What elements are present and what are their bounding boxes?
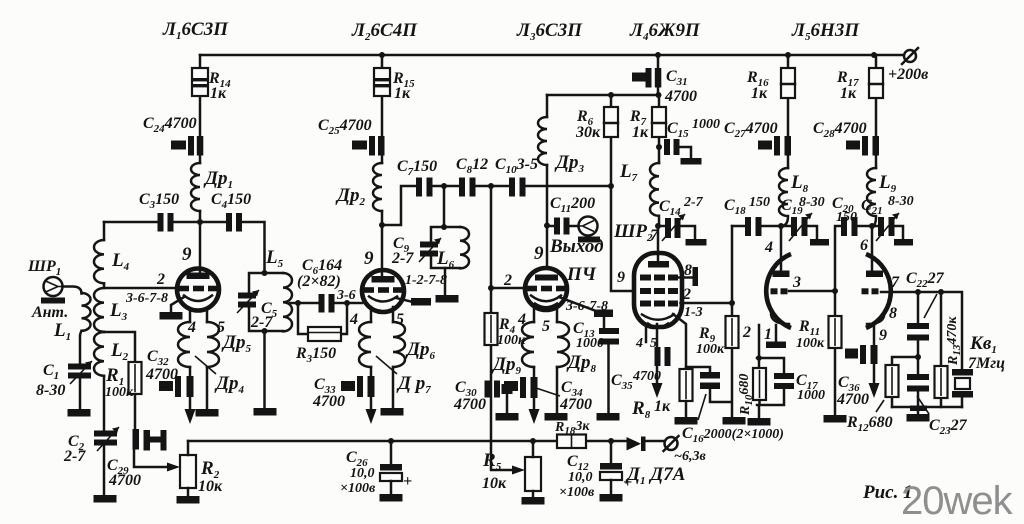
arrow heater stage2 bbox=[366, 409, 377, 424]
wire C10 to Dr3 line bbox=[526, 185, 612, 188]
svg-text:5: 5 bbox=[542, 318, 550, 335]
node L5 bottom bbox=[262, 328, 268, 334]
wire R4 column bbox=[491, 288, 516, 470]
svg-text:4700: 4700 bbox=[453, 396, 486, 413]
svg-text:2: 2 bbox=[156, 271, 165, 288]
ground L5 bbox=[254, 408, 277, 416]
tube V3 grid bbox=[526, 286, 566, 292]
svg-text:2-7: 2-7 bbox=[250, 314, 273, 331]
wire +200V supply rail bbox=[200, 54, 903, 57]
resistor R8 bbox=[680, 369, 693, 401]
svg-text:8: 8 bbox=[684, 262, 692, 279]
tube V3 cathode strap bbox=[594, 310, 613, 318]
svg-text:1000: 1000 bbox=[797, 388, 825, 403]
tube V4 pin8 stub bbox=[693, 267, 699, 286]
resistor R5 bbox=[525, 457, 541, 491]
ground C2 bbox=[94, 495, 117, 503]
inductor Dr1 bbox=[191, 163, 200, 211]
resistor R7 bbox=[652, 107, 666, 137]
node Dr2 bottom bbox=[379, 222, 385, 228]
wire tube2 heater pins bbox=[371, 307, 393, 322]
inductor Dr9 left bbox=[522, 322, 534, 367]
tube V5a grid bbox=[771, 288, 788, 294]
wire tube4 anode stem bbox=[657, 226, 660, 260]
terminal 6.3V bbox=[664, 436, 679, 451]
arrow heater stage3 bbox=[529, 409, 540, 424]
capacitor C13 bbox=[599, 328, 619, 345]
resistor R18 bbox=[557, 435, 586, 449]
node L8 junction bbox=[778, 223, 784, 229]
svg-text:1к: 1к bbox=[654, 398, 671, 415]
diode D1 bbox=[627, 437, 646, 452]
capacitor C11 bbox=[547, 218, 578, 235]
svg-text:150: 150 bbox=[749, 195, 770, 210]
inductor Dr5 right bbox=[207, 322, 219, 367]
resistor R17 bbox=[869, 68, 883, 98]
wire tube5a anode stem bbox=[780, 226, 783, 271]
svg-text:100к: 100к bbox=[796, 336, 825, 351]
node anode-C3-C4 bbox=[197, 219, 203, 225]
resistor R12 bbox=[886, 365, 899, 397]
resistor R1 bbox=[129, 362, 142, 394]
resistor R9 bbox=[726, 316, 739, 348]
capacitor C6 bbox=[319, 294, 335, 313]
capacitor C17 bbox=[774, 373, 794, 389]
svg-text:150: 150 bbox=[836, 210, 857, 225]
svg-text:8-30: 8-30 bbox=[36, 382, 65, 399]
wire R15 anode chain bbox=[381, 55, 384, 225]
resistor R10 bbox=[753, 368, 766, 400]
svg-text:6: 6 bbox=[860, 237, 868, 254]
capacitor C21 trimmer bbox=[872, 213, 913, 246]
wire C9-L6 tank box bbox=[431, 227, 460, 268]
svg-text:2: 2 bbox=[682, 286, 691, 303]
svg-text:8: 8 bbox=[889, 305, 897, 322]
wire pin8 lead bbox=[678, 276, 693, 279]
inductor Dr3 bbox=[538, 117, 547, 165]
inductor Dr6 right bbox=[393, 322, 405, 367]
svg-text:×100в: ×100в bbox=[559, 485, 595, 500]
arrow cathode tube5b bbox=[869, 383, 880, 398]
wire C20 drop bbox=[835, 226, 872, 291]
svg-text:Л46Ж9П: Л46Ж9П bbox=[629, 20, 701, 43]
tube V3 anode bbox=[535, 275, 558, 281]
wire tube5a cathode lead bbox=[775, 325, 778, 341]
inductor L2 bbox=[94, 332, 104, 376]
wire tube3 cathode lead bbox=[559, 297, 596, 311]
tube V2 envelope bbox=[362, 270, 404, 312]
tube V2 cathode bbox=[369, 297, 397, 302]
ground C23 bbox=[907, 414, 930, 422]
wire coil column top bbox=[103, 222, 106, 240]
arrow R5 wiper bbox=[512, 466, 525, 475]
capacitor C36 bbox=[845, 345, 878, 364]
resistor R6 bbox=[604, 107, 618, 137]
tube V5a cathode strap bbox=[766, 342, 786, 349]
ground C23 small bbox=[910, 406, 927, 412]
wire tube5a pin1 lead bbox=[758, 325, 761, 358]
wire R8 lead bbox=[673, 314, 686, 369]
svg-text:3-6-7-8: 3-6-7-8 bbox=[125, 291, 168, 306]
pointer Dr4 bbox=[195, 356, 216, 374]
wire R5 ground stem bbox=[532, 491, 535, 497]
ground Dr5 bbox=[196, 409, 219, 417]
node grid tube3 tap bbox=[488, 183, 494, 189]
svg-text:8-30: 8-30 bbox=[799, 195, 825, 210]
tube V2 anode bbox=[372, 276, 395, 283]
svg-text:1к: 1к bbox=[632, 124, 649, 141]
wire heater bus bbox=[188, 440, 664, 443]
node feed-R6 bbox=[608, 92, 614, 98]
capacitor C20 bbox=[841, 217, 858, 236]
svg-text:1-3: 1-3 bbox=[684, 305, 703, 320]
ground C26 bbox=[380, 494, 403, 502]
resistor R16 bbox=[781, 68, 795, 98]
wire tube1 anode stem bbox=[199, 222, 202, 272]
tube V4 cathode bbox=[642, 315, 674, 328]
wire Dr8 ground stem bbox=[556, 367, 559, 413]
node C14 tap bbox=[655, 223, 661, 229]
svg-text:10к: 10к bbox=[482, 475, 507, 492]
svg-text:3-6-7-8: 3-6-7-8 bbox=[565, 299, 608, 314]
capacitor C33 feedthrough bbox=[341, 376, 375, 397]
svg-text:100к: 100к bbox=[696, 342, 725, 357]
tube V3 envelope bbox=[525, 268, 567, 310]
node R5-bus bbox=[530, 438, 536, 444]
wire R11 column bbox=[834, 291, 837, 415]
capacitor C7 bbox=[416, 178, 433, 197]
ground R9 bbox=[723, 417, 746, 425]
svg-text:Выход: Выход bbox=[549, 236, 604, 257]
inductor L5 bbox=[283, 273, 292, 331]
svg-text:1: 1 bbox=[764, 326, 772, 343]
ground R2 bbox=[177, 496, 200, 504]
svg-text:3: 3 bbox=[792, 274, 801, 291]
node rail-R16 bbox=[785, 52, 791, 58]
inductor L8 bbox=[779, 168, 788, 226]
capacitor C3 bbox=[158, 213, 174, 232]
capacitor C8 bbox=[459, 178, 476, 197]
resistor R13 bbox=[935, 366, 948, 398]
pointer C16 bbox=[698, 394, 706, 420]
svg-text:1к: 1к bbox=[840, 85, 857, 102]
inductor L1 bbox=[82, 293, 91, 331]
svg-text:1к: 1к bbox=[751, 85, 768, 102]
wire R3 loop bbox=[298, 303, 347, 334]
wire screen feed line bbox=[547, 94, 659, 97]
wire tube5b cathode lead bbox=[873, 325, 876, 383]
capacitor C16 bbox=[686, 367, 731, 402]
wire Dr3 anode column bbox=[546, 95, 549, 268]
svg-text:7Мгц: 7Мгц bbox=[968, 355, 1005, 372]
inductor Dr7 left bbox=[359, 322, 371, 367]
wire grid line tube1 bbox=[104, 283, 177, 288]
inductor L4 bbox=[94, 240, 104, 283]
wire tube5b anode stem bbox=[871, 226, 874, 271]
wire R10-C17 bottom bbox=[757, 389, 784, 418]
wire C1 ground stem bbox=[79, 379, 82, 410]
crystal Kv1 bbox=[952, 369, 973, 398]
inductor L7 bbox=[650, 163, 659, 226]
capacitor C14 trimmer bbox=[658, 214, 707, 246]
wire Dr9 heater lead bbox=[533, 367, 536, 409]
wire C2 ground stem bbox=[103, 446, 106, 496]
node rail-R15 bbox=[379, 52, 385, 58]
ground tube1 cathode bbox=[160, 312, 183, 320]
wire C13 stem bbox=[604, 317, 609, 413]
wire C5-L5 tank box bbox=[249, 273, 283, 331]
ground R11 bbox=[824, 415, 847, 423]
ground C30 bbox=[496, 413, 519, 421]
capacitor C23 bbox=[907, 374, 929, 392]
node coupling C7-C8 bbox=[441, 183, 447, 189]
tube V1 envelope bbox=[177, 269, 219, 311]
node rail-R17 bbox=[871, 52, 877, 58]
capacitor C1 trimmer bbox=[68, 361, 92, 384]
wire C3 line bbox=[104, 221, 200, 224]
wire C22-C23 column bbox=[917, 292, 920, 407]
capacitor C29 feedthrough bbox=[133, 429, 167, 451]
wire Dr2 to C7 bbox=[382, 186, 416, 225]
pointer Dr7 bbox=[376, 356, 397, 374]
wire grid tap from L5 bbox=[290, 302, 362, 305]
ground R10-C17 bbox=[748, 418, 771, 426]
svg-text:4: 4 bbox=[635, 336, 643, 351]
wire bottom net tube5b bbox=[892, 407, 962, 414]
inductor Dr8 right bbox=[557, 322, 569, 367]
tube V5b anode bbox=[866, 271, 883, 278]
connector ShR1 bbox=[41, 277, 65, 304]
tube V5b grid bbox=[862, 288, 879, 294]
node bus-C26 bbox=[388, 438, 394, 444]
svg-text:7: 7 bbox=[891, 274, 900, 291]
node grid5a-R11 bbox=[832, 288, 838, 294]
wire Dr7 heater lead bbox=[370, 367, 373, 410]
wire R16 column bbox=[787, 55, 790, 168]
svg-text:4700: 4700 bbox=[108, 472, 141, 489]
capacitor C5 trimmer bbox=[237, 290, 259, 313]
wire L6 tank stem bbox=[443, 186, 446, 227]
capacitor C30 bbox=[485, 381, 513, 414]
svg-text:ПЧ: ПЧ bbox=[566, 264, 597, 285]
node C22-R12 bbox=[915, 354, 921, 360]
svg-text:4700: 4700 bbox=[836, 391, 869, 408]
wire C7 to C8 bbox=[433, 185, 460, 188]
wire Dr4 heater lead bbox=[189, 367, 192, 410]
wire grid line tube5a bbox=[789, 290, 835, 293]
wire bus to R2 bbox=[187, 441, 190, 455]
resistor R3 bbox=[308, 327, 341, 341]
wire R2 ground stem bbox=[187, 488, 190, 496]
svg-text:4700: 4700 bbox=[145, 366, 178, 383]
svg-text:10к: 10к bbox=[198, 478, 223, 495]
pointer C23 bbox=[917, 396, 929, 414]
svg-text:Л56Н3П: Л56Н3П bbox=[791, 20, 860, 43]
svg-text:4700: 4700 bbox=[312, 393, 345, 410]
ground L6 tank bbox=[436, 295, 459, 303]
tube V1 grid bbox=[178, 286, 217, 292]
wire C18 line bbox=[732, 225, 781, 228]
tube V4 grid1 bbox=[640, 288, 678, 294]
svg-text:2-7: 2-7 bbox=[683, 195, 704, 210]
wire R7 column bbox=[658, 95, 661, 163]
wire Dr6 ground stem bbox=[392, 367, 395, 408]
tube V5a envelope bbox=[766, 254, 791, 328]
svg-text:1000: 1000 bbox=[692, 117, 720, 132]
svg-text:+: + bbox=[403, 473, 412, 490]
inductor L6 bbox=[460, 227, 469, 268]
svg-text:~6,3в: ~6,3в bbox=[674, 449, 706, 464]
wire R1 tap bbox=[104, 332, 135, 362]
tube V5b envelope bbox=[866, 254, 891, 328]
svg-text:9: 9 bbox=[879, 327, 887, 344]
capacitor C10 bbox=[509, 178, 526, 197]
capacitor C28 bbox=[846, 136, 879, 156]
svg-text:4: 4 bbox=[764, 239, 773, 256]
svg-text:20wek: 20wek bbox=[901, 479, 1014, 523]
capacitor C27 bbox=[758, 136, 791, 156]
ground C12 bbox=[600, 494, 623, 502]
wire grid line tube5b bbox=[881, 291, 918, 294]
svg-text:30к: 30к bbox=[575, 124, 601, 141]
node L9 junction bbox=[869, 223, 875, 229]
wire ShR1 to L1 bbox=[63, 287, 82, 294]
tube V3 cathode bbox=[531, 296, 561, 308]
wire pin2 line tube4 bbox=[681, 302, 733, 305]
svg-text:1-2-7-8: 1-2-7-8 bbox=[405, 273, 447, 288]
svg-text:100к: 100к bbox=[105, 385, 134, 400]
resistor R4 bbox=[485, 313, 498, 345]
capacitor C18 bbox=[745, 217, 762, 236]
svg-text:9: 9 bbox=[364, 248, 374, 269]
ground C1 bbox=[68, 409, 91, 417]
svg-text:9: 9 bbox=[182, 244, 192, 265]
tube V5b cathode bbox=[867, 312, 884, 324]
wire grid1 line tube4 bbox=[611, 186, 635, 291]
node C11 tap bbox=[544, 223, 550, 229]
node C6-R3 right bbox=[344, 300, 350, 306]
svg-text:2: 2 bbox=[503, 272, 512, 289]
node cathode5a bbox=[756, 355, 762, 361]
wire tube3 heater pins bbox=[534, 307, 557, 322]
capacitor C15 bbox=[664, 139, 702, 165]
node C15 bbox=[656, 144, 662, 150]
ground R5 bbox=[522, 497, 545, 505]
svg-text:Л36С3П: Л36С3П bbox=[516, 20, 583, 43]
svg-text:×100в: ×100в bbox=[340, 481, 376, 496]
tube V4 anode bbox=[648, 261, 669, 268]
tube V4 grid3 bbox=[640, 275, 678, 281]
capacitor C2 trimmer bbox=[94, 427, 119, 451]
node L5 top bbox=[262, 270, 268, 276]
wire C31 stem bbox=[657, 55, 660, 95]
wire grid tube3 bbox=[491, 186, 525, 288]
tube V5a cathode bbox=[771, 312, 789, 324]
node grid5b-R13 bbox=[938, 289, 944, 295]
wire R17 column bbox=[875, 55, 878, 168]
capacitor C9 trimmer bbox=[419, 238, 441, 262]
pointer C34 bbox=[536, 388, 560, 396]
capacitor C24 bbox=[171, 136, 203, 156]
tube V4 grid2 bbox=[640, 301, 678, 307]
wire R1 to C29 bbox=[134, 394, 137, 429]
svg-text:4: 4 bbox=[349, 311, 358, 328]
terminal +200V bbox=[902, 48, 918, 64]
wire tube1 heater pins bbox=[190, 308, 207, 322]
capacitor C4 bbox=[226, 213, 242, 232]
svg-text:Д1 Д7А: Д1 Д7А bbox=[625, 464, 685, 487]
capacitor C22 bbox=[907, 323, 929, 341]
svg-text:Л16С3П: Л16С3П bbox=[162, 19, 229, 42]
wire L6 ground stem bbox=[444, 268, 447, 295]
ground Dr8 bbox=[545, 413, 568, 421]
inductor Dr5 left bbox=[178, 322, 190, 367]
node tap-L5 bbox=[295, 300, 301, 306]
svg-text:10,0: 10,0 bbox=[350, 466, 375, 481]
wire R14 anode chain bbox=[199, 55, 202, 222]
inductor L9 bbox=[867, 168, 876, 226]
svg-text:+200в: +200в bbox=[888, 66, 928, 83]
tube V4 envelope bbox=[634, 253, 682, 327]
wire L1 to C1 bbox=[80, 331, 82, 364]
wire tube1 cathode lead bbox=[171, 297, 184, 312]
tube V5a anode bbox=[773, 271, 790, 278]
inductor Dr2 bbox=[373, 163, 382, 211]
wire L2 to C2 bbox=[103, 376, 106, 431]
svg-text:10,0: 10,0 bbox=[568, 470, 593, 485]
svg-text:4700: 4700 bbox=[559, 396, 592, 413]
wire tube2 cathode lead bbox=[396, 298, 413, 302]
resistor R15 bbox=[374, 68, 390, 96]
ground tube2 cathode bbox=[411, 298, 431, 306]
node feed-R7 bbox=[656, 92, 662, 98]
capacitor C31 bbox=[632, 68, 661, 88]
svg-text:1к: 1к bbox=[210, 85, 227, 102]
ground Dr6 bbox=[381, 408, 404, 416]
node L6 top bbox=[441, 224, 447, 230]
wire C29 to R2 wiper arrow bbox=[134, 449, 180, 472]
inductor L3 bbox=[94, 288, 104, 332]
wire R13 column bbox=[940, 292, 943, 407]
svg-text:9: 9 bbox=[534, 243, 544, 264]
svg-text:Л26С4П: Л26С4П bbox=[351, 20, 418, 43]
capacitor C35 bbox=[655, 347, 671, 366]
connector IF output jack bbox=[578, 217, 600, 243]
svg-text:9: 9 bbox=[617, 269, 625, 286]
capacitor C19 trimmer bbox=[781, 213, 829, 246]
wire R9 column bbox=[731, 226, 734, 417]
pointer R12 bbox=[876, 400, 884, 412]
wire Kv1 branch bbox=[918, 292, 962, 407]
node rail-C31 bbox=[655, 52, 661, 58]
wire C35 arrow lead bbox=[656, 366, 659, 383]
svg-text:8-30: 8-30 bbox=[888, 194, 914, 209]
svg-text:Ант.: Ант. bbox=[31, 304, 68, 321]
node grid-R4 bbox=[488, 285, 494, 291]
svg-text:2-7: 2-7 bbox=[63, 448, 86, 465]
svg-text:2-7: 2-7 bbox=[391, 250, 414, 267]
pointer C22 bbox=[924, 294, 937, 318]
arrow heater stage4 bbox=[652, 383, 663, 398]
svg-text:(2×82): (2×82) bbox=[297, 273, 341, 290]
svg-text:1к: 1к bbox=[394, 85, 411, 102]
capacitor C34 feedthrough bbox=[504, 377, 538, 398]
tube V1 anode bbox=[187, 273, 210, 280]
resistor R11 bbox=[829, 316, 842, 348]
node bus-C12 bbox=[608, 438, 614, 444]
tube V2 grid bbox=[363, 287, 403, 293]
wire C8 to C10 bbox=[476, 185, 510, 188]
